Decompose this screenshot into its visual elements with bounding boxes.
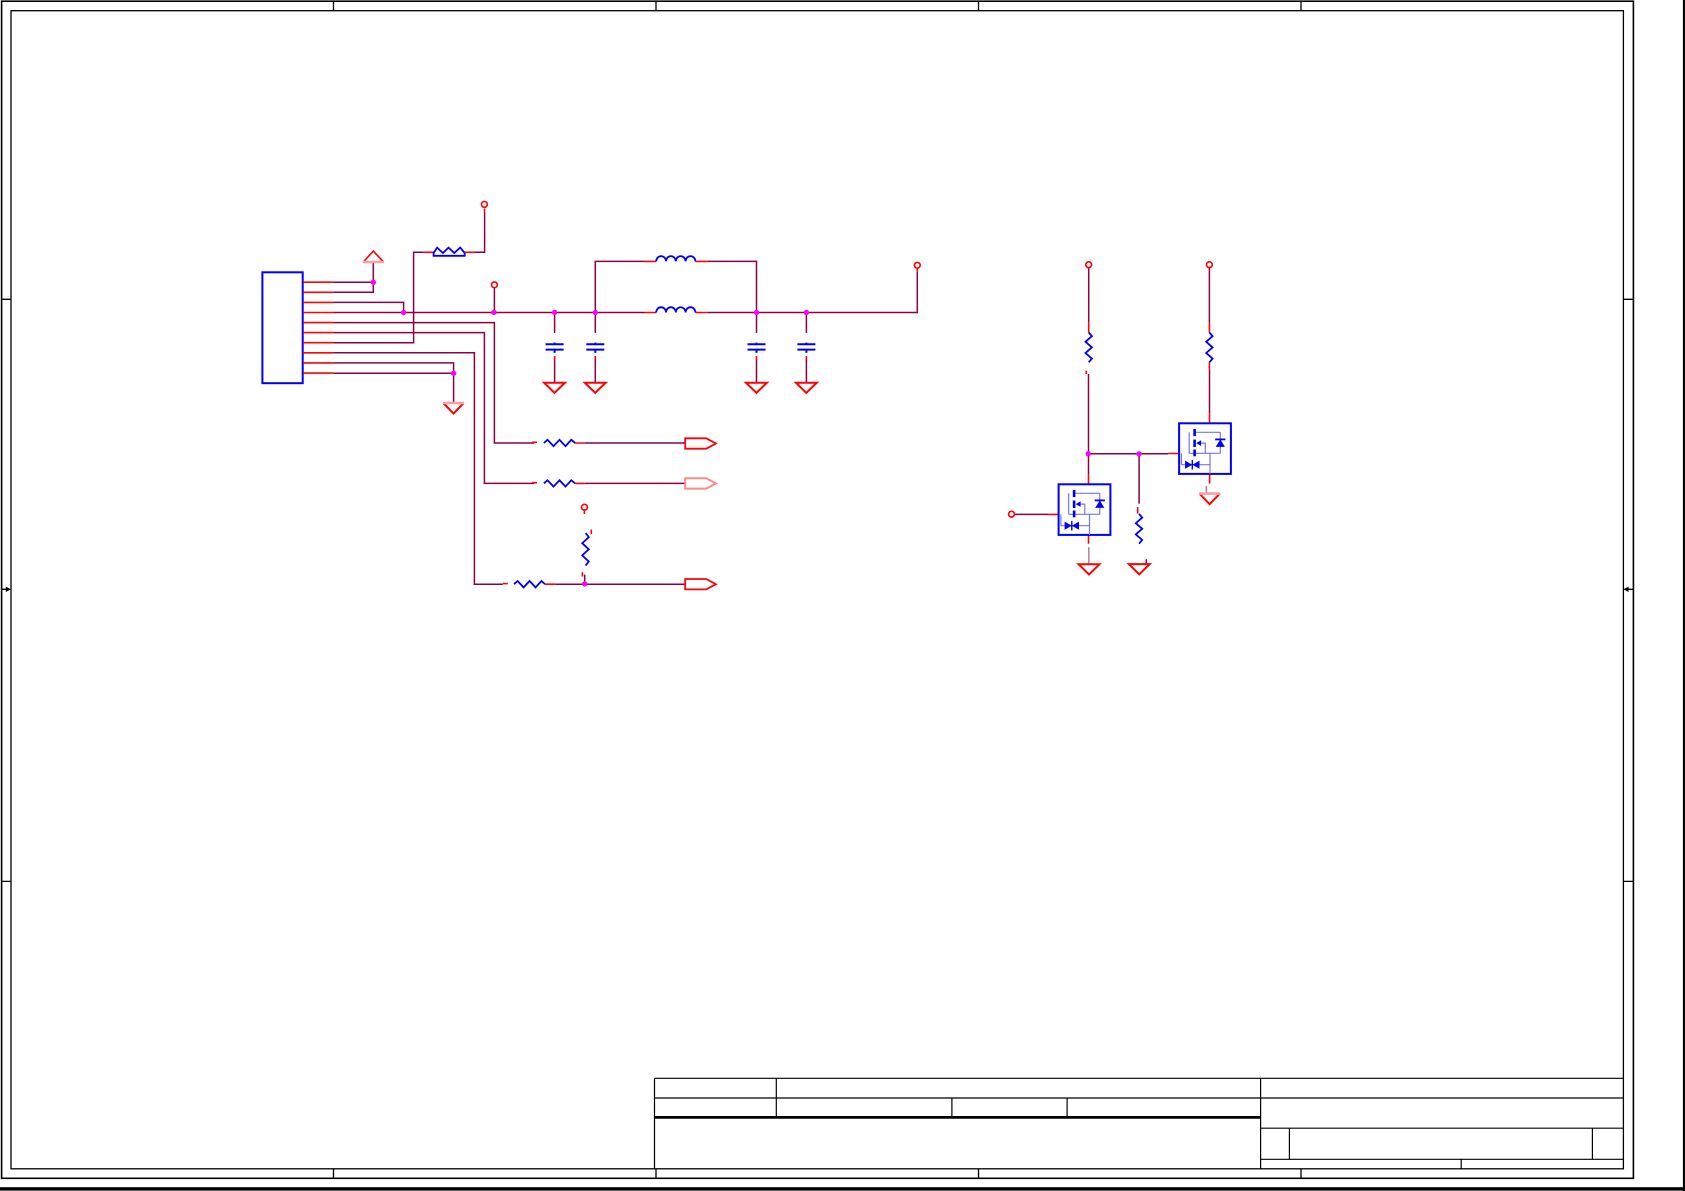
resistor R1 (zigzag with baseline) bbox=[434, 248, 465, 256]
connector pin 7 bbox=[303, 342, 333, 344]
junction main/C4 bbox=[804, 310, 809, 315]
power arrow VCC bbox=[363, 251, 384, 262]
border center arrow left bbox=[2, 587, 11, 592]
pin stubs inductor L1 bbox=[645, 260, 708, 262]
wire Q2 source to ground (dimmed) bbox=[1205, 486, 1207, 494]
pin stubs resistor R5 bbox=[1086, 323, 1088, 374]
connector pin 3 bbox=[303, 301, 333, 303]
pin stubs resistor R2 bbox=[532, 441, 585, 444]
wire Q1 source to ground (dimmed) bbox=[1088, 547, 1090, 564]
connector pin 2 bbox=[303, 291, 333, 293]
wire G6 tick bbox=[1145, 559, 1147, 564]
wire pin7 up to R1 bbox=[333, 252, 423, 342]
connector pin 10 bbox=[303, 372, 333, 374]
pin stub port circle above R1 bbox=[484, 209, 486, 213]
junction main/port-circle bbox=[491, 310, 496, 315]
port circle (antenna right) bbox=[914, 262, 920, 268]
wire row1 right to port bbox=[585, 442, 685, 444]
wire right left-col mid bbox=[1088, 374, 1090, 454]
resistor R5 (left col) bbox=[1086, 333, 1092, 363]
wire mid col to R8 bbox=[1138, 454, 1140, 504]
junction R8/Q2-gate node bbox=[1136, 451, 1141, 456]
wires (maroon) bbox=[333, 212, 1209, 584]
ground G6 bbox=[1129, 564, 1150, 574]
wire C3 bottom bbox=[756, 360, 758, 383]
wire pin3 bbox=[333, 302, 403, 312]
junction pin9/pin10/gnd bbox=[451, 371, 456, 376]
wire C1 bottom bbox=[554, 360, 556, 383]
connector J1 bbox=[262, 272, 302, 383]
resistor R7 (vertical at port) bbox=[582, 533, 589, 566]
junction main/C2/L1-branch bbox=[593, 310, 598, 315]
junction pin3/pin4 bbox=[401, 310, 406, 315]
wire right col top bbox=[1208, 268, 1210, 323]
wire power stem bbox=[372, 262, 374, 282]
pin stubs resistor R6 bbox=[1208, 323, 1210, 369]
inductor L1 bbox=[656, 256, 695, 261]
junction R5/Q1 node bbox=[1086, 451, 1091, 456]
capacitor C3 bbox=[748, 343, 766, 353]
wire R6 to Q2 bbox=[1209, 369, 1211, 413]
wire pin8 to row3 bbox=[333, 353, 502, 584]
pin stubs resistor R4 bbox=[503, 583, 556, 586]
junction row3/R7 bbox=[582, 581, 587, 586]
pin stubs inductor L2 bbox=[645, 312, 708, 314]
mosfet Q2 bbox=[1179, 423, 1231, 474]
pins transistor Q2 bbox=[1168, 413, 1210, 483]
junction main/C3/L1-return bbox=[754, 310, 759, 315]
wire pin2 riser bbox=[333, 282, 373, 292]
pins transistor Q1 bbox=[1049, 475, 1089, 544]
wire pin1 to power junction bbox=[333, 281, 373, 283]
wire main line right bbox=[707, 272, 917, 313]
wire main line left bbox=[333, 312, 644, 314]
wire junction row bbox=[1088, 453, 1168, 455]
wire C2 top bbox=[594, 313, 596, 333]
wire L1 right down bbox=[707, 261, 756, 312]
page edge dark strips bbox=[0, 1187, 1685, 1190]
wire Q1 gate from circle bbox=[1014, 513, 1048, 515]
capacitor C2 bbox=[586, 343, 604, 353]
resistor R4 (row3) bbox=[514, 581, 545, 587]
wire C4 bottom bbox=[805, 360, 807, 383]
pin stub port circle antenna bbox=[916, 268, 918, 271]
capacitor C1 bbox=[546, 343, 564, 353]
wire C4 top bbox=[805, 313, 807, 333]
connector pin 9 bbox=[303, 362, 333, 364]
wire right left-col top bbox=[1088, 268, 1090, 323]
resistor R2 (row1) bbox=[544, 440, 575, 446]
port circle (Q1 gate) bbox=[1009, 511, 1015, 517]
ground G1 bbox=[544, 383, 565, 393]
arrow port P3 bbox=[685, 579, 716, 589]
port circle (main line) bbox=[492, 282, 498, 288]
pin stubs capacitors C1-C4 bbox=[555, 356, 807, 360]
wire R1 right to circle bbox=[475, 212, 485, 252]
border center arrow right bbox=[1623, 587, 1633, 592]
wire gnd5 stem bbox=[453, 373, 455, 402]
wire circle stub above main bbox=[493, 288, 495, 313]
ground G2 bbox=[585, 383, 606, 393]
junction main/C1 bbox=[552, 310, 557, 315]
arrow port P1 bbox=[685, 438, 716, 448]
connector pin 5 bbox=[303, 322, 333, 324]
inductor L2 bbox=[656, 307, 695, 312]
ground G7 bbox=[1079, 564, 1100, 574]
ground G8 bbox=[1199, 494, 1220, 505]
junction power/pin1/pin2 bbox=[371, 280, 376, 285]
wire C2 branch up to L1 bbox=[595, 261, 644, 312]
pin stub resistor R8 bbox=[1137, 507, 1139, 513]
red pin stubs bbox=[424, 209, 1210, 585]
connector pin 8 bbox=[303, 352, 333, 354]
wire left col to Q1 bbox=[1088, 454, 1090, 475]
title block bbox=[655, 1078, 1624, 1169]
wire pin5 to row1 bbox=[333, 323, 534, 443]
wire C1 top bbox=[554, 313, 556, 333]
capacitor C4 bbox=[797, 343, 815, 353]
port circle (R7 top) bbox=[582, 504, 588, 510]
resistor R8 (mid col) bbox=[1136, 514, 1142, 544]
wire pin6 to row2 bbox=[333, 333, 534, 484]
connector pin 4 bbox=[303, 312, 333, 314]
ground G5 bbox=[443, 403, 464, 414]
connector pin 6 bbox=[303, 332, 333, 334]
port circle (R1 top) bbox=[482, 202, 488, 208]
pin stubs resistor R3 bbox=[532, 482, 585, 485]
wire C2 bottom bbox=[594, 360, 596, 383]
ground G4 bbox=[796, 383, 817, 393]
connector pin 1 bbox=[303, 281, 333, 283]
pin stubs resistor R7 bbox=[582, 510, 591, 576]
mosfet Q1 bbox=[1059, 484, 1111, 535]
wire row3 right to port bbox=[555, 583, 685, 585]
port circle (right col top) bbox=[1207, 262, 1213, 268]
wire row2 right to port bbox=[585, 482, 685, 484]
pin stubs resistor R1 bbox=[424, 251, 475, 253]
wire pin9 bbox=[333, 363, 453, 373]
resistor R6 (right col) bbox=[1206, 333, 1212, 363]
port circle (left col top) bbox=[1086, 262, 1092, 268]
wire C3 top bbox=[756, 313, 758, 333]
wire R7 bottom stub bbox=[584, 575, 586, 584]
wire pin10 bbox=[333, 372, 453, 374]
ground G3 bbox=[746, 383, 767, 393]
resistor R3 (row2) bbox=[544, 480, 575, 486]
arrow port P2 bbox=[685, 478, 716, 488]
